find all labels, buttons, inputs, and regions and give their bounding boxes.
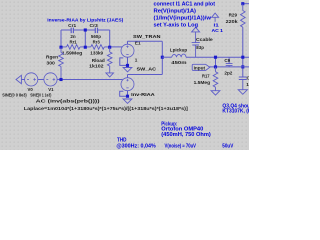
comment title Inverse-RIAA — [47, 17, 123, 23]
wire E1 inv input loop — [120, 58, 128, 66]
wire to edge — [243, 3, 249, 5]
value label AC — [36, 98, 101, 103]
svg-text:Ccable: Ccable — [196, 37, 213, 42]
svg-text:83p: 83p — [196, 45, 204, 50]
svg-text:Rr1: Rr1 — [70, 39, 78, 44]
junction mid node — [84, 46, 87, 49]
svg-text:Rgen: Rgen — [46, 55, 58, 60]
wire right rail — [242, 27, 244, 77]
wire down to node — [161, 41, 163, 57]
wire — [38, 79, 44, 81]
junction left node — [59, 46, 62, 49]
resistor Rr3 — [85, 34, 109, 55]
svg-text:Inverse-RIAA by Lipshitz (JAES: Inverse-RIAA by Lipshitz (JAES) — [47, 17, 123, 23]
resistor Rgen — [46, 47, 63, 79]
capacitor C9 — [224, 57, 232, 75]
capacitor Cr1 — [68, 23, 76, 33]
junction main node — [161, 56, 164, 59]
resistor R17 — [194, 67, 218, 91]
svg-text:1k102: 1k102 — [89, 64, 104, 69]
comment Pickup — [161, 122, 211, 138]
svg-text:input: input — [194, 65, 206, 70]
svg-text:50uV: 50uV — [222, 144, 233, 150]
junction E1 ground — [126, 64, 129, 67]
capacitor C18 — [239, 76, 256, 90]
wire top rail — [61, 29, 110, 31]
svg-text:V0: V0 — [28, 87, 34, 92]
svg-text:133k9: 133k9 — [90, 50, 103, 55]
svg-text:R17: R17 — [202, 73, 210, 78]
wire E1 top pin — [127, 41, 129, 44]
svg-text:V(noise) ≈ 70uV: V(noise) ≈ 70uV — [165, 144, 197, 150]
junction R29 top — [241, 2, 244, 5]
svg-text:SW_TRAN: SW_TRAN — [133, 34, 161, 39]
resistor Rr1 — [61, 34, 85, 55]
junction E2 ground — [126, 95, 129, 98]
svg-text:KT3107K, (K: KT3107K, (K — [222, 108, 249, 114]
wire left vertical — [60, 30, 62, 47]
net label input — [192, 64, 210, 70]
svg-text:2p2: 2p2 — [224, 70, 232, 75]
ground left (rotated) — [16, 75, 21, 83]
wire pickup to rail — [186, 56, 249, 58]
junction rail c — [241, 65, 244, 68]
svg-text:@300Hz: 0,04%: @300Hz: 0,04% — [116, 144, 156, 150]
ground R17 — [211, 91, 220, 95]
comment instructions — [154, 1, 216, 28]
svg-text:Rr3: Rr3 — [93, 39, 101, 44]
svg-text:C9: C9 — [224, 58, 230, 63]
voltage source V1 — [30, 73, 57, 98]
svg-text:Lpickup: Lpickup — [170, 48, 188, 53]
junction right node — [108, 46, 111, 49]
wire — [21, 79, 24, 81]
comment noise — [165, 144, 234, 150]
junction rail b — [241, 56, 244, 59]
svg-text:R29: R29 — [229, 13, 238, 18]
svg-text:(1/Im(V(input)/1A))/w: (1/Im(V(input)/1A))/w — [154, 15, 212, 21]
svg-text:Cr1: Cr1 — [68, 23, 76, 28]
svg-text:V1: V1 — [48, 87, 54, 92]
svg-text:1.59Meg: 1.59Meg — [62, 50, 83, 55]
svg-text:set Y-axis to Log: set Y-axis to Log — [154, 22, 199, 28]
svg-text:1.5Meg: 1.5Meg — [194, 80, 211, 85]
wire bottom row right — [110, 46, 123, 48]
svg-text:220k: 220k — [226, 19, 238, 24]
wire middle vertical — [84, 30, 86, 47]
svg-text:Laplace=1m0104*(1+3180u*s)*(1+: Laplace=1m0104*(1+3180u*s)*(1+75u*s)/[(1… — [24, 106, 189, 111]
ground Rload — [106, 73, 114, 77]
ground rail — [238, 90, 247, 95]
wire E2 to node — [128, 74, 163, 76]
comment SW_TRAN — [133, 34, 161, 39]
value label Laplace — [24, 106, 189, 111]
svg-text:300: 300 — [46, 61, 55, 66]
svg-text:C18: C18 — [247, 76, 250, 81]
wire node down — [161, 57, 163, 74]
ground E2 — [123, 99, 132, 103]
svg-text:100: 100 — [246, 82, 249, 87]
wire main bottom — [57, 79, 122, 81]
ground E1 — [123, 68, 132, 72]
junction tap bottom — [214, 65, 217, 68]
wire input net — [209, 66, 249, 68]
junction Rgen bottom — [59, 78, 62, 81]
svg-text:SINE(0 0 8e3): SINE(0 0 8e3) — [2, 93, 27, 98]
wire to Lpickup — [162, 56, 172, 58]
inductor Lpickup — [170, 48, 188, 65]
dependent source E2 Inv-RIAA — [121, 78, 155, 97]
wire input tap — [215, 57, 217, 67]
wire E2 top pin — [127, 75, 129, 78]
comment Q3 Q4 — [222, 103, 251, 114]
svg-text:1: 1 — [135, 57, 138, 62]
svg-text:SINE(0 1 1e3): SINE(0 1 1e3) — [30, 93, 51, 98]
svg-text:AC (inv(abs(prb()))): AC (inv(abs(prb()))) — [36, 98, 101, 103]
svg-text:connect I1 AC1 and plot: connect I1 AC1 and plot — [154, 1, 216, 7]
svg-text:Re(V(input)/1A): Re(V(input)/1A) — [154, 8, 197, 14]
resistor Rload — [89, 47, 112, 73]
svg-text:Cr3: Cr3 — [90, 23, 99, 28]
wire E2 inv input loop — [120, 91, 128, 96]
svg-text:Rload: Rload — [92, 58, 105, 63]
wire E1 bottom pin — [127, 57, 129, 65]
ground flag up arrow (Ccable) — [192, 27, 200, 32]
svg-text:Inv-RIAA: Inv-RIAA — [131, 92, 155, 97]
voltage source V0 — [2, 73, 38, 98]
svg-text:AC 1: AC 1 — [212, 28, 224, 34]
wire E2 bottom pin — [127, 91, 129, 97]
svg-text:(450mH, 750 Ohm): (450mH, 750 Ohm) — [161, 132, 211, 138]
svg-text:THD: THD — [117, 138, 127, 144]
svg-text:I1: I1 — [214, 22, 220, 28]
capacitor Ccable — [192, 32, 214, 57]
capacitor Cr3 — [90, 23, 99, 33]
svg-text:SW_AC: SW_AC — [137, 67, 157, 72]
junction tap top — [214, 56, 217, 59]
wire right vertical — [109, 30, 111, 47]
junction top mid — [84, 28, 87, 31]
svg-text:450m: 450m — [171, 60, 186, 65]
comment THD — [116, 138, 156, 150]
dependent source E1 — [121, 40, 141, 62]
comment SW_AC — [137, 67, 157, 72]
wire top to node — [128, 40, 163, 42]
current source I1 (arrow) — [212, 13, 224, 34]
